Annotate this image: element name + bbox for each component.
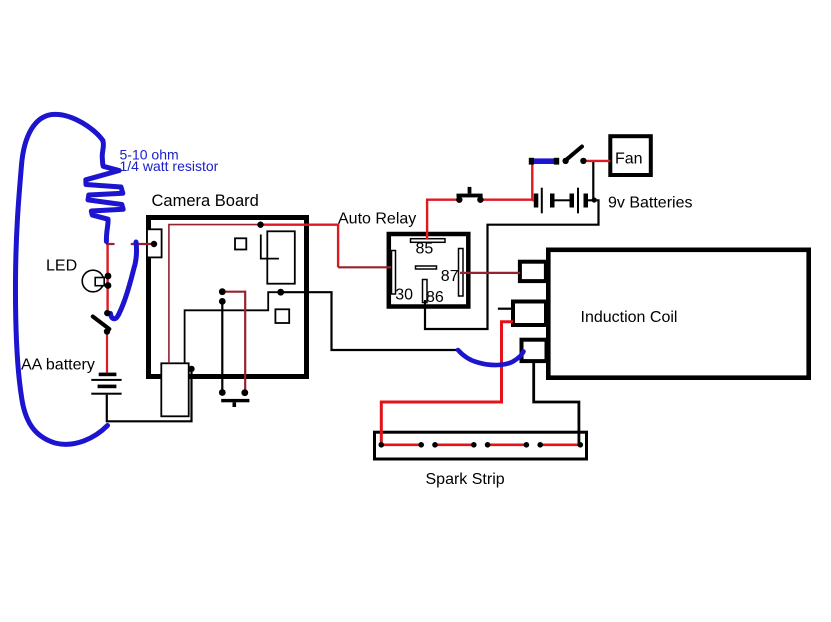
svg-text:LED: LED bbox=[46, 258, 77, 275]
svg-text:86: 86 bbox=[426, 289, 444, 306]
svg-text:Induction Coil: Induction Coil bbox=[581, 309, 678, 326]
svg-text:85: 85 bbox=[416, 241, 434, 258]
svg-text:30: 30 bbox=[395, 287, 413, 304]
svg-text:Camera Board: Camera Board bbox=[152, 192, 259, 210]
svg-text:Fan: Fan bbox=[615, 151, 643, 168]
svg-text:AA battery: AA battery bbox=[21, 357, 95, 374]
svg-text:87: 87 bbox=[441, 268, 459, 285]
svg-text:1/4 watt resistor: 1/4 watt resistor bbox=[120, 158, 219, 174]
svg-text:9v Batteries: 9v Batteries bbox=[608, 195, 692, 212]
svg-text:Auto Relay: Auto Relay bbox=[338, 211, 416, 228]
svg-text:Spark Strip: Spark Strip bbox=[426, 471, 505, 488]
